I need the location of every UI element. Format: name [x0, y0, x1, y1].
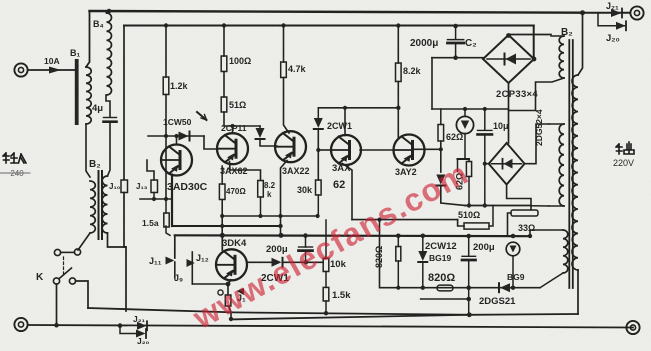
- svg-text:2CW1: 2CW1: [327, 121, 352, 131]
- node collector 3AD30C: [174, 134, 178, 138]
- node bus/BG9 diode: [511, 234, 516, 239]
- node y216 b: [258, 214, 262, 218]
- svg-text:3AY2: 3AY2: [395, 167, 417, 177]
- winding B2 sec1: [559, 36, 564, 78]
- resistor 8.2k lower: [258, 181, 264, 198]
- node bridge1 top vertex: [506, 33, 511, 38]
- transistor 3AY2: [394, 135, 425, 166]
- wire BG9 down: [512, 256, 514, 288]
- wire y205 line: [465, 205, 531, 207]
- svg-text:30k: 30k: [297, 185, 313, 195]
- resistor 1.5k: [323, 287, 329, 301]
- wire to output terminal J21: [583, 12, 631, 14]
- resistor 100 ohm: [221, 56, 227, 72]
- wire 62ohm to diode U2: [440, 141, 442, 172]
- wire fuse to bus: [166, 226, 170, 235]
- wire bridge2 bottom to 33ohm: [507, 185, 531, 210]
- wire winding3 top lead: [530, 230, 563, 236]
- node bottom contact junction: [118, 323, 123, 328]
- node y216 c: [278, 214, 282, 218]
- wire 3AX22 emitter down: [281, 161, 288, 236]
- wire regulator network bottom line: [397, 287, 540, 289]
- node collector 3AX62 second: [343, 106, 347, 110]
- resistor 510 ohm: [464, 223, 489, 229]
- node rail/1.2k: [164, 23, 168, 27]
- relay coil J1: [225, 295, 231, 306]
- diode U2: [436, 175, 445, 185]
- wire 3DK4 emitter to relay coil: [228, 280, 231, 295]
- capacitor C2 2000u: [448, 39, 464, 41]
- wire J13 to 3AD30C base node: [147, 160, 154, 180]
- svg-text:1.5k: 1.5k: [332, 290, 351, 301]
- wire 820ohm to line: [397, 261, 399, 288]
- wire 1.2k to bias node: [165, 95, 167, 200]
- wire switch to bottom line: [56, 284, 58, 325]
- transformer B2 core: [98, 171, 100, 239]
- node 62ohm/3AY2: [439, 147, 443, 151]
- transistor 3AX62 second: [331, 135, 361, 165]
- wire BG19 down: [422, 263, 424, 288]
- Chinese label 输入 (input): [3, 153, 26, 163]
- wire 3AX62 collector up: [344, 108, 346, 136]
- node rail/C2: [453, 24, 458, 29]
- capacitor 200u: [299, 246, 313, 248]
- node y216 a: [220, 214, 224, 218]
- svg-text:BG9: BG9: [507, 272, 525, 282]
- node y226 b: [278, 224, 282, 228]
- wire contact J10 down: [124, 193, 126, 248]
- wire J20 branch top: [598, 13, 626, 26]
- wire left rail drop: [123, 26, 125, 180]
- wire 200u top: [305, 236, 307, 247]
- wire line B relay coil return: [231, 315, 470, 320]
- resistor 62 ohm second: [466, 162, 471, 177]
- wire regulator diode bottom: [464, 134, 466, 159]
- node rail/100ohm: [222, 23, 226, 27]
- resistor 51 ohm: [221, 97, 227, 112]
- svg-text:2CP33×4: 2CP33×4: [496, 89, 538, 100]
- svg-text:470Ω: 470Ω: [226, 187, 246, 196]
- wire C2 top lead: [455, 26, 457, 39]
- wire y220 branch down: [380, 220, 398, 288]
- wire B4 to capacitor 4u: [106, 95, 110, 117]
- node y199 a: [152, 197, 156, 201]
- capacitor 4u: [104, 117, 117, 119]
- winding B2 sec2: [559, 124, 564, 206]
- diode 2DGS21: [500, 283, 510, 292]
- wire 8.2k lower to node: [260, 197, 262, 216]
- node y109/regulator diode: [463, 107, 467, 111]
- annotation arrow: [197, 112, 207, 120]
- wire bridge1 bottom to bridge2 top: [508, 83, 510, 143]
- svg-text:220V: 220V: [613, 158, 634, 168]
- wire C2 bottom lead: [455, 43, 457, 58]
- winding B2 primary-left: [90, 181, 95, 233]
- wire diode to 10k: [283, 261, 323, 263]
- node y220/820ohm branch: [377, 218, 381, 222]
- svg-text:2000μ: 2000μ: [410, 38, 438, 49]
- svg-text:3AX62: 3AX62: [220, 166, 248, 176]
- svg-text:J₁₀: J₁₀: [109, 182, 121, 191]
- zener diode 2CW1: [314, 118, 323, 128]
- wire 62ohm-2 bracket: [458, 158, 470, 160]
- winding B2 output: [572, 75, 578, 270]
- wire rail to 8.2k: [397, 26, 399, 63]
- wire output winding bottom: [577, 270, 579, 314]
- resistor 8.2k upper: [396, 63, 402, 82]
- node lineA lineB merge: [467, 312, 472, 317]
- svg-text:3AX22: 3AX22: [282, 166, 310, 176]
- wire winding1 top lead: [551, 35, 564, 37]
- svg-text:J₂₀: J₂₀: [606, 33, 620, 44]
- wire bridge1 top to B2 winding: [509, 34, 552, 36]
- wire rail to 1.2k: [165, 26, 167, 78]
- wire J12 column: [191, 252, 193, 284]
- wire input live: [28, 69, 76, 71]
- wire winding1 bottom return: [509, 78, 565, 111]
- Chinese label 输出 (output): [616, 142, 634, 154]
- node y205 a: [467, 203, 471, 207]
- svg-text:J₂₁: J₂₁: [606, 1, 619, 11]
- svg-text:4μ: 4μ: [92, 103, 103, 114]
- diode 1CW50: [179, 132, 189, 141]
- wire bridge2 right to winding2 top: [525, 124, 549, 164]
- wire to 3AX62 collector: [232, 126, 234, 133]
- wire 3AX62 to 3AY2 base: [360, 149, 393, 151]
- wire rail to 100ohm: [223, 26, 225, 57]
- wire rail to bridge1 right vertex: [533, 26, 535, 59]
- scan noise texture: [0, 0, 1, 1]
- wire bus to 820ohm: [397, 236, 399, 247]
- svg-text:8.2: 8.2: [264, 181, 276, 190]
- resistor 30k: [316, 180, 322, 195]
- winding B4: [107, 13, 112, 95]
- wire bus to BG19: [422, 236, 424, 251]
- node y226 a: [220, 224, 224, 228]
- wire 8.2k to 3AY2 collector: [397, 82, 399, 139]
- wire 3AX62 emitter down: [343, 164, 353, 220]
- wire 3AD30C collector line: [148, 135, 204, 137]
- node base 3AX62 second: [316, 148, 320, 152]
- wire winding2 bottom lead: [531, 205, 549, 207]
- resistor 470 ohm: [219, 184, 225, 200]
- wire top-left drop to B1 winding: [86, 11, 90, 67]
- node coil/lineB: [229, 317, 233, 321]
- wire 470ohm up: [221, 166, 223, 184]
- wire 200u bottom: [305, 251, 307, 263]
- svg-text:BG19: BG19: [429, 253, 451, 263]
- resistor R 1.2k: [163, 77, 169, 95]
- svg-text:C₂: C₂: [465, 38, 477, 49]
- wire 3AX62 emitter to 8.2k: [230, 162, 261, 181]
- wire bottom main line: [28, 325, 633, 328]
- resistor 62 ohm: [438, 125, 444, 142]
- wire winding3 bottom lead: [540, 273, 563, 288]
- wire 200u second down to line B: [468, 260, 470, 315]
- wire B1 bottom to B2 left winding: [86, 124, 90, 177]
- node bus/820ohm: [396, 234, 401, 239]
- svg-text:10A: 10A: [44, 56, 60, 66]
- node y199 b: [164, 197, 168, 201]
- svg-text:2DGS21: 2DGS21: [479, 296, 516, 307]
- fuse 10A: [49, 67, 61, 74]
- node y109/10u: [483, 107, 487, 111]
- svg-text:J₁₃: J₁₃: [136, 182, 148, 191]
- resistor 10k: [323, 258, 329, 271]
- relay contact J21 top: [611, 9, 622, 17]
- relay contact J21 bottom: [137, 322, 147, 330]
- svg-text:1.5a: 1.5a: [142, 218, 159, 228]
- svg-text:3AD30C: 3AD30C: [167, 181, 208, 193]
- svg-text:820Ω: 820Ω: [374, 246, 384, 268]
- svg-text:B₄: B₄: [93, 19, 104, 29]
- wire 3AD30C collector up: [176, 136, 178, 145]
- node winding3/bus: [528, 234, 532, 238]
- wire 33ohm return to bus: [508, 213, 512, 236]
- svg-text:J₁₁: J₁₁: [149, 256, 162, 266]
- svg-text:510Ω: 510Ω: [458, 210, 480, 220]
- relay contact J20 bottom: [136, 330, 146, 338]
- wire bus to 200u second: [468, 236, 470, 256]
- node y205 b: [483, 203, 487, 207]
- svg-text:8.2k: 8.2k: [403, 66, 422, 76]
- wire zener to 30k: [317, 130, 319, 181]
- relay contact J12: [187, 259, 195, 267]
- svg-text:4.7k: 4.7k: [288, 64, 307, 74]
- wire inner positive rail: [124, 25, 534, 27]
- svg-text:B₁: B₁: [70, 48, 80, 58]
- input terminal lower: [14, 318, 27, 331]
- wire bus to 3DK4: [221, 235, 223, 250]
- bridge rectifier 2DG52x4: [489, 143, 525, 185]
- wire to zener: [317, 108, 319, 118]
- node 820/line: [396, 286, 400, 290]
- wire y109 line: [432, 108, 509, 110]
- node BG9/line: [511, 286, 515, 290]
- wire 2CW1 node line: [318, 107, 398, 109]
- wire regulator diode top: [464, 109, 466, 116]
- node bus/200u: [303, 233, 308, 238]
- wire B2 left winding to switch: [78, 233, 90, 250]
- wire 10u bottom to y205: [484, 134, 486, 205]
- svg-text:2CP11: 2CP11: [221, 123, 247, 133]
- wire top supply rail: [90, 11, 583, 13]
- svg-text:J₂₀: J₂₀: [137, 336, 150, 346]
- resistor 820 ohm vertical: [396, 247, 401, 262]
- wire diode U2 down: [441, 186, 465, 206]
- wire 62ohm top: [440, 109, 442, 125]
- output terminal upper: [630, 6, 643, 19]
- svg-text:K: K: [36, 272, 44, 283]
- bridge rectifier 2CP33x4: [483, 35, 534, 83]
- winding B2 sec3: [563, 230, 568, 273]
- diode 2CW1 second: [272, 258, 282, 267]
- wire J13 lower lead: [153, 193, 155, 200]
- node bottom switch junction: [54, 323, 59, 328]
- capacitor 200u second: [462, 255, 476, 257]
- node 200u/y299: [466, 297, 471, 302]
- transistor 3AD30C: [161, 145, 192, 176]
- wire y299 stub: [421, 298, 469, 300]
- output terminal lower: [626, 321, 639, 334]
- svg-text:3AX: 3AX: [332, 163, 351, 174]
- wire output winding top: [578, 13, 583, 75]
- wire diode to 3AX62 base: [204, 136, 217, 149]
- node BG19/line: [421, 286, 425, 290]
- wire resistor bottom rail y216: [222, 215, 317, 217]
- node 200u/line: [466, 285, 471, 290]
- svg-text:3DK4: 3DK4: [222, 238, 247, 249]
- resistor 33 ohm: [511, 210, 538, 216]
- transistor 3AX62 first: [217, 133, 248, 164]
- wire 3AY2 to 62ohm node: [413, 148, 441, 150]
- wire 10k to 1.5k: [325, 272, 327, 288]
- wire bus left drop J11: [174, 235, 176, 258]
- transistor 3AX22: [275, 131, 306, 162]
- winding B1 primary: [86, 67, 91, 124]
- node emitter 3DK4: [226, 282, 231, 287]
- capacitor 10u: [478, 129, 493, 131]
- node junction top rail / B2 output winding: [580, 10, 585, 15]
- svg-text:2CW12: 2CW12: [425, 241, 457, 252]
- wire switch pole to relay line: [76, 281, 89, 308]
- wire 3DK4 collector output: [247, 261, 271, 263]
- node 1.5k/lineB: [324, 311, 328, 315]
- wire rail to 4.7k: [283, 26, 285, 63]
- regulator diode 2CW with circle: [456, 116, 473, 133]
- wire 1.5k to line B: [325, 301, 327, 313]
- wire 2CP11 diode to 3AX22 base: [260, 140, 277, 147]
- wire winding2 bottom: [549, 205, 564, 207]
- wire bridge1 left drop: [431, 58, 433, 109]
- resistor 4.7k: [281, 62, 287, 78]
- svg-text:62Ω: 62Ω: [446, 132, 463, 142]
- winding B2 right: [102, 176, 107, 233]
- wire middle bus: [175, 234, 530, 237]
- wire 4u cap to B2 winding: [108, 122, 111, 176]
- svg-text:51Ω: 51Ω: [229, 100, 246, 110]
- svg-text:62: 62: [333, 179, 345, 191]
- svg-text:820Ω: 820Ω: [428, 272, 455, 284]
- input terminal upper: [14, 63, 27, 76]
- wire 51ohm to 2CP11 diode: [224, 112, 260, 126]
- node bridge1 right vertex: [532, 57, 537, 62]
- node 200u/output: [304, 260, 308, 264]
- wire emitter bus y226: [172, 225, 281, 227]
- transformer B2 core right: [568, 40, 570, 288]
- node rail/4.7k: [281, 23, 285, 27]
- svg-text:200μ: 200μ: [473, 242, 495, 253]
- wire 4.7k to 3AX22 collector: [284, 78, 290, 134]
- svg-text:k: k: [267, 190, 272, 199]
- wire 3AD30C emitter down: [171, 175, 173, 227]
- svg-text:J₁₂: J₁₂: [196, 253, 209, 263]
- wire base bias node: [140, 198, 172, 200]
- wire B2 right winding down to bottom line: [108, 233, 127, 311]
- node 1.2k/diode line: [164, 134, 168, 138]
- relay contact J20 top: [616, 22, 626, 30]
- wire B4 top lead: [107, 11, 110, 13]
- node bridge2 left vertex tap: [483, 162, 487, 166]
- wire 10k top: [325, 220, 327, 258]
- wire relay coil to line B: [229, 306, 232, 319]
- wire y220 to 510ohm: [458, 220, 464, 226]
- node collector 2CP11 stage: [230, 124, 234, 128]
- node bus/BG19: [421, 234, 426, 239]
- node bus/3AX22 emitter: [279, 233, 284, 238]
- svg-text:B₂: B₂: [89, 159, 101, 170]
- relay contact J11: [166, 257, 175, 265]
- relay contact J13: [151, 180, 158, 193]
- node rail/8.2k: [396, 23, 400, 27]
- wire 62ohm-2 down: [468, 177, 470, 206]
- diode BG9 with circle: [506, 242, 520, 256]
- wire to fuse: [165, 199, 167, 213]
- wire 510ohm right lead: [489, 206, 493, 227]
- wire feedback line y220: [352, 219, 458, 221]
- fuse 1.5a: [164, 213, 169, 227]
- node C2/bridge: [453, 55, 458, 60]
- transformer B1 core: [75, 59, 79, 125]
- svg-text:J₂₁: J₂₁: [133, 314, 146, 324]
- diode 2CP11: [259, 126, 261, 128]
- wire stub: [457, 159, 459, 171]
- wire J12 to 3DK4 emitter node: [192, 283, 228, 285]
- node 8.2k/2CW1 line: [396, 106, 400, 110]
- wire line A switch to regulator: [88, 308, 578, 315]
- wire 30k to y216: [317, 195, 319, 216]
- relay contact J10: [121, 180, 128, 193]
- svg-text:1CW50: 1CW50: [163, 117, 192, 127]
- wire J11 column: [174, 262, 176, 278]
- wire J20 bypass: [120, 326, 136, 334]
- node bus/200u second: [466, 234, 471, 239]
- transistor 3DK4: [216, 249, 247, 280]
- wire to bridge2 left vertex: [485, 163, 489, 165]
- diode BG19: [418, 251, 427, 261]
- node y216 d: [316, 214, 320, 218]
- svg-text:33Ω: 33Ω: [518, 223, 535, 233]
- switch K: [53, 249, 80, 284]
- wire to 3AX62 base: [318, 149, 331, 151]
- wire 470ohm to bus: [221, 200, 223, 236]
- wire 10u top lead: [484, 109, 486, 130]
- wire 100ohm to 51ohm: [223, 72, 225, 98]
- svg-text:1.2k: 1.2k: [170, 81, 189, 91]
- resistor 820 ohm horizontal: [437, 285, 453, 291]
- wire bridge1 left line: [432, 57, 483, 59]
- svg-text:100Ω: 100Ω: [229, 56, 251, 66]
- watermark www.elecfans.com: [187, 101, 572, 337]
- node junction top rail / B4: [107, 9, 112, 14]
- node bus/3DK4 collector: [220, 233, 225, 238]
